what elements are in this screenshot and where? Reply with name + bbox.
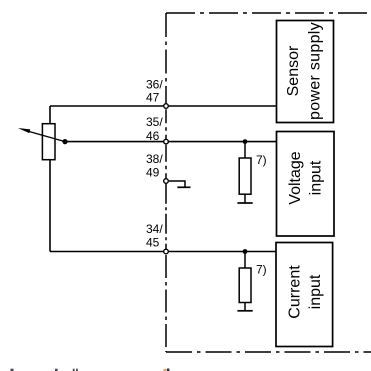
device boundary dashed left line [165, 13, 167, 106]
junction dot node A (voltage divider tap) [243, 139, 248, 144]
svg-text:47: 47 [146, 91, 160, 105]
svg-text:34/: 34/ [146, 222, 163, 236]
wire: potentiometer bottom branch [49, 160, 51, 252]
terminal 35/46 [164, 139, 169, 144]
wire: current shunt top lead [244, 252, 246, 269]
wire: voltage input line y=141.6 [65, 141, 277, 143]
svg-text:45: 45 [146, 235, 160, 249]
wire: shunt top lead [244, 142, 246, 158]
block U2: Voltage input [277, 132, 335, 237]
terminator bar (current shunt) [237, 310, 252, 312]
resistor 7) voltage input shunt [239, 158, 251, 194]
device boundary dashed bottom line [166, 351, 371, 353]
svg-text:input: input [308, 160, 325, 195]
terminator bar (voltage shunt) [237, 202, 252, 204]
junction dot node B (current shunt tap) [243, 249, 248, 254]
block U1: Sensor power supply [277, 21, 334, 123]
cut-off caption text fragments at bottom edge [11, 369, 78, 371]
svg-text:Current: Current [287, 265, 304, 319]
ground symbol at terminal 38/49 [169, 181, 191, 187]
terminal 34/45 [164, 249, 169, 254]
terminal 38/49 [164, 179, 169, 184]
svg-text:38/: 38/ [146, 152, 163, 166]
svg-text:Sensor: Sensor [285, 45, 302, 96]
block U3: Current input [276, 243, 333, 347]
wire: shunt bottom lead [244, 194, 246, 203]
svg-text:46: 46 [146, 129, 160, 143]
resistor 7) current input shunt [239, 268, 251, 303]
svg-text:power supply: power supply [307, 22, 324, 120]
wire: current input line y=251.5 [50, 251, 277, 253]
potentiometer R (position sensor) [42, 124, 55, 160]
wire: potentiometer top branch [49, 106, 51, 124]
wire: sensor supply line y=106 [50, 105, 277, 107]
svg-text:36/: 36/ [146, 77, 163, 91]
terminal 36/47 [164, 104, 169, 109]
wiper arrow of potentiometer [18, 128, 65, 142]
device boundary dashed top line [166, 12, 371, 14]
svg-text:input: input [307, 274, 324, 309]
svg-text:7): 7) [256, 262, 267, 276]
svg-text:35/: 35/ [146, 115, 163, 129]
svg-text:7): 7) [256, 153, 267, 167]
wire: current shunt bottom lead [244, 303, 246, 311]
junction dot: wiper tap [62, 139, 67, 144]
svg-text:Voltage: Voltage [287, 151, 304, 204]
svg-text:49: 49 [146, 166, 160, 180]
